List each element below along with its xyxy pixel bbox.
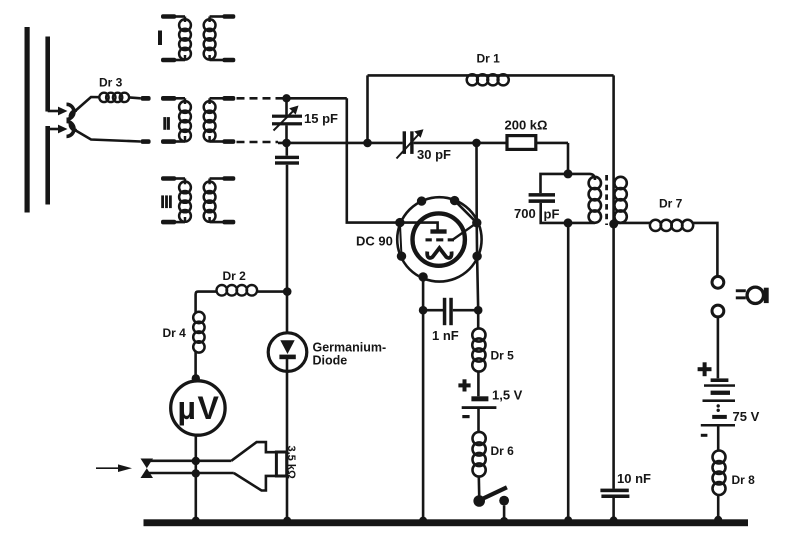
wire Dr1 riser [366,75,369,142]
svg-text:Diode: Diode [313,354,348,368]
label III [161,195,172,208]
svg-text:1 nF: 1 nF [432,328,459,343]
label Germanium-Diode [313,341,387,368]
ground bus [144,519,749,526]
plug hook top [67,104,78,119]
transformer audio secondary [614,177,626,223]
switch lever [480,487,507,500]
transformer audio core [605,175,608,225]
antenna feedline right conductor upper [45,37,50,112]
wire dashed link top [237,97,279,100]
svg-text:Dr 6: Dr 6 [491,444,515,458]
svg-text:15 pF: 15 pF [304,111,338,126]
capacitor 15 pF variable [272,98,302,143]
node bus junction transformer [564,516,572,524]
label DC 90 [356,234,393,249]
label Dr 6 [491,444,515,458]
node main-grid junction [472,139,481,148]
svg-text:DC 90: DC 90 [356,234,393,249]
battery 1.5V minus sign [462,415,469,418]
jack terminal top [712,276,724,288]
node Dr2 junction [283,287,292,296]
node phone line bottom junction [192,469,200,477]
node bus junction meter [192,517,200,525]
node bus junction filament [419,517,427,525]
capacitor fixed under 15pF [275,143,299,165]
label II [163,117,170,130]
wire to Dr5 [477,310,480,329]
battery 75V plus sign [698,362,712,376]
label 15 pF [304,111,338,126]
capacitor 700 pF [529,174,568,223]
wire transformer bottom to bus [567,223,570,520]
coil Dr 3 [99,93,140,102]
resistor 200 kOhm [507,136,536,150]
transformer audio primary [568,174,601,223]
input arrow [96,464,132,472]
wire diode to bus [286,359,289,520]
node bus junction diode [283,517,291,525]
wire to Dr7 [614,222,650,225]
svg-text:µV: µV [178,390,221,426]
tube pin 2 [450,196,459,205]
svg-text:10 nF: 10 nF [617,471,651,486]
tube pin 1 [417,196,426,205]
node main-15pF junction [282,139,291,148]
wire grid riser [477,143,479,310]
transformer III secondary winding [204,176,236,224]
node 1nF right junction [474,306,483,315]
tube pin 6 [472,252,481,261]
wire Dr2 left corner [196,292,217,313]
coil Dr 1 [467,74,509,85]
tube DC90 inner circle [413,213,465,265]
svg-text:Dr 1: Dr 1 [477,52,501,66]
wire secondary to 10nF [612,224,615,489]
svg-text:Dr 4: Dr 4 [163,326,187,340]
svg-text:1,5 V: 1,5 V [492,388,523,403]
transformer I secondary winding [204,14,236,62]
wire Dr1 line down to secondary [612,75,615,224]
resistor 3.5 kOhm element [276,452,286,476]
tube chord left [400,223,402,257]
wire resistor to transformer top [567,143,570,174]
transformer II primary winding [161,96,191,144]
coil Dr 7 [650,220,718,277]
antenna plug contact top [141,96,151,101]
antenna feed stub arrow bottom [48,125,68,134]
wire meter to bus [195,435,198,519]
node 1nF left junction [419,306,428,315]
svg-text:Dr 7: Dr 7 [659,197,683,211]
tube pin 5 [472,218,481,227]
label Dr 3 [99,76,123,90]
node transformer bottom junction [564,218,573,227]
label Dr 8 [732,473,756,487]
wire Dr1 top line [368,74,614,77]
antenna plug contact bottom [141,139,151,144]
tube DC90 outer circle [397,197,481,281]
label 1 nF [432,328,459,343]
diode germanium circle [268,333,307,372]
capacitor 30 pF variable [397,129,424,158]
wire hook to lower plug [74,130,141,142]
svg-text:Germanium-: Germanium- [313,341,387,355]
wire corner to tube left pin [347,98,400,222]
node bus junction Dr8 [714,516,722,524]
label Dr 2 [223,269,247,283]
battery 75V minus sign [701,434,708,437]
label 10 nF [617,471,651,486]
label 700 pF [514,206,559,222]
svg-text:75 V: 75 V [733,409,760,424]
label 200 kOhm [505,118,548,133]
battery 75 V [701,378,735,426]
node main-Dr1 junction [363,139,372,148]
tube pin 4 [397,252,406,261]
coil Dr 6 [473,432,486,496]
coil Dr 4 [193,312,204,381]
earpiece horn [231,442,276,490]
label uV [178,390,221,426]
node 15pF top junction [282,94,290,102]
wire main line [278,142,568,145]
wire filament to bus [422,277,425,520]
antenna feedline left conductor [25,27,30,213]
label Dr 4 [163,326,187,340]
earphone icon [736,287,769,303]
battery 1,5 V [462,396,497,409]
label I [158,31,162,46]
phone line pair bottom wire [147,472,234,475]
label 30 pF [417,147,451,162]
wire hook to Dr3 [74,97,100,112]
node bus junction switch [500,517,508,525]
tube pin 3 [395,218,404,227]
svg-text:pF: pF [544,207,560,222]
switch contact [499,496,509,521]
wire grid top line [278,97,347,100]
transformer III primary winding [161,176,191,224]
jack terminal bottom [712,305,724,378]
wire dashed link bottom [237,141,279,144]
transformer I primary winding [161,14,191,62]
label Dr 1 [477,52,501,66]
svg-text:Dr 3: Dr 3 [99,76,123,90]
meter uV circle [171,381,225,435]
label 3,5 kOhm [285,446,297,479]
svg-text:Dr 2: Dr 2 [223,269,247,283]
plug hook bottom [67,121,78,136]
wire diode branch upper [286,165,289,334]
tube grid dashes [426,238,455,241]
tube filament [427,248,451,258]
node secondary bottom junction [609,219,618,228]
tube grid lead [453,223,477,240]
phone line pair top wire [147,459,231,462]
capacitor 10 nF [600,489,629,520]
label 1,5 V [492,388,523,403]
label Dr 7 [659,197,683,211]
tube chord top-right [455,201,477,223]
coil Dr 2 [217,285,288,296]
battery 1.5V plus sign [458,379,470,391]
svg-text:Dr 8: Dr 8 [732,473,756,487]
node bus junction 10nF [610,516,618,524]
label 75 V [733,409,760,424]
tube pin 7 [418,272,427,281]
wire battery to Dr6 [477,409,480,432]
switch pole [473,495,485,507]
transformer II secondary winding [204,96,236,144]
node meter top junction [192,374,200,382]
svg-text:Dr 5: Dr 5 [491,349,515,363]
svg-text:30 pF: 30 pF [417,147,451,162]
svg-text:200 kΩ: 200 kΩ [505,118,548,133]
coil Dr 5 [472,328,485,396]
phone line end crossing [141,459,154,479]
label Dr 5 [491,349,515,363]
antenna feed stub arrow top [48,107,68,116]
node phone line top junction [192,457,200,465]
tube anode lead [400,223,447,234]
svg-text:700: 700 [514,206,536,221]
capacitor 1 nF [423,298,478,325]
antenna feedline right conductor lower [45,126,50,205]
wire battery to Dr8 [717,427,720,452]
node transformer top junction [564,169,573,178]
coil Dr 8 [713,451,726,520]
